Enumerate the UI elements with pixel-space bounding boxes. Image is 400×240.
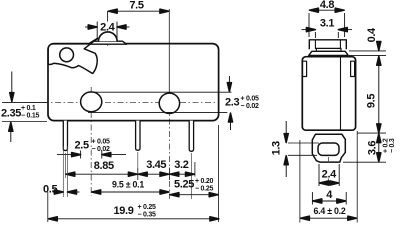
leader line hole bottom tangent [88, 111, 227, 113]
extension line pin2 centre [137, 152, 139, 168]
plunger stem (end view) [309, 40, 346, 50]
svg-text:9.5 ± 0.1: 9.5 ± 0.1 [112, 179, 144, 189]
body seam line [340, 57, 342, 130]
dimension 2.3 +0.05/-0.02 [229, 76, 230, 130]
plunger stem inner lines [314, 40, 316, 49]
svg-text:5.25: 5.25 [174, 179, 194, 191]
svg-text:9.5: 9.5 [366, 94, 378, 108]
switch body (end view) [302, 57, 355, 131]
svg-text:− 0.3: − 0.3 [389, 138, 396, 153]
svg-text:− 0.02: − 0.02 [92, 146, 111, 153]
svg-text:+ 0.1: + 0.1 [21, 105, 36, 112]
svg-text:4.8: 4.8 [320, 0, 334, 11]
terminal pin P1 [63, 121, 67, 151]
extension line body right edge down [218, 125, 220, 222]
svg-text:0.4: 0.4 [366, 27, 378, 42]
dimension chain 8.85 / 3.45 / 3.2 [65, 173, 195, 175]
dimension 7.5 [108, 10, 170, 12]
svg-text:3.1: 3.1 [320, 18, 334, 30]
centerline terminal [328, 157, 330, 164]
dimension 3.1 [302, 30, 353, 38]
svg-text:2.4: 2.4 [322, 169, 337, 181]
dimension 2.5 +0.05/-0.02 hole width [57, 151, 126, 159]
centerline hole H1 vertical [90, 87, 92, 196]
plunger flange (left view) [89, 41, 126, 44]
terminal pin P2 [136, 121, 140, 151]
svg-text:2.4: 2.4 [100, 21, 115, 33]
svg-text:+ 0.20: + 0.20 [195, 178, 214, 185]
extension line pin3 centre [190, 153, 192, 199]
leader line body bottom right [357, 132, 386, 134]
terminal slot hole [318, 143, 339, 155]
svg-text:2.5: 2.5 [75, 139, 89, 151]
leader lines slot 1.3 [288, 142, 319, 144]
dimension 9.5 height [378, 56, 380, 133]
centerline hole H2 vertical [168, 94, 170, 200]
svg-text:6.4 ± 0.2: 6.4 ± 0.2 [314, 206, 346, 216]
leader line terminal bottom [343, 161, 386, 163]
centerline plunger (left view) [107, 32, 109, 47]
solder terminal (end view) [312, 134, 345, 162]
dimension 19.9 +0.25/-0.35 overall length [48, 218, 220, 220]
svg-text:− 0.25: − 0.25 [195, 186, 214, 193]
dimension 9.5 ±0.1 hole spacing [91, 191, 169, 193]
dimension 0.4 [378, 41, 380, 50]
leader line hole top tangent [88, 91, 232, 93]
svg-text:3.45: 3.45 [146, 159, 166, 171]
svg-text:+ 0.25: + 0.25 [138, 204, 157, 211]
svg-text:19.9: 19.9 [114, 205, 134, 217]
right latch clip [351, 61, 355, 76]
extension tick chain at pin2 [137, 168, 139, 180]
plunger dome (left view) [99, 32, 118, 41]
dimension 2.35 +0.1/-0.15 [11, 72, 12, 143]
svg-text:− 0.35: − 0.35 [138, 212, 157, 219]
extension line body left edge down [47, 192, 49, 222]
leader lines flange 0.4 [349, 50, 386, 52]
dimension 1.3 [285, 121, 287, 177]
left latch clip [303, 61, 307, 76]
dimension 0.5 pin thickness [53, 146, 80, 197]
svg-text:+ 0.05: + 0.05 [92, 139, 111, 146]
mounting hole H2 [159, 93, 179, 113]
svg-text:1.3: 1.3 [271, 141, 283, 155]
terminal pin P3 [189, 121, 193, 152]
extension line pin1 centre [64, 153, 66, 178]
plunger collar [316, 48, 341, 51]
svg-text:8.85: 8.85 [94, 160, 114, 172]
centerline holes horizontal [30, 101, 215, 103]
svg-text:2.3: 2.3 [225, 97, 239, 109]
lever (broken-away actuator) [48, 38, 97, 73]
dimension 4 terminal width [312, 192, 346, 205]
svg-text:7.5: 7.5 [129, 0, 143, 12]
extension tick chain at hole H2 [168, 168, 170, 181]
leader line hole centre left [2, 101, 47, 103]
dimension 3.6 +0.2/-0.3 [378, 134, 380, 163]
svg-text:3.2: 3.2 [174, 159, 188, 171]
mounting hole H1 [81, 92, 102, 112]
dimension 6.4 ±0.2 [300, 217, 357, 219]
svg-text:3.6: 3.6 [367, 141, 379, 155]
dimension 5.25 +0.20/-0.25 [169, 194, 218, 196]
switch body (left view) [48, 44, 219, 121]
extension line 7.5 right end / hole H2 centre upper [168, 9, 170, 94]
dimension 2.4 slot width [319, 164, 339, 186]
svg-text:− 0.15: − 0.15 [21, 113, 40, 120]
svg-text:2.35: 2.35 [1, 107, 21, 119]
svg-text:4: 4 [326, 189, 333, 201]
plunger flange 4.8 wide [309, 51, 349, 55]
dimension 2.4 plunger [85, 22, 130, 41]
leader line body bottom left [2, 121, 47, 123]
extension lines 6.4 [299, 140, 301, 223]
lever pivot hole [60, 48, 74, 62]
extension line 7.5 left end [107, 11, 109, 22]
extension line 3.2 right end [194, 162, 196, 177]
svg-text:+ 0.05: + 0.05 [241, 96, 260, 103]
svg-text:− 0.02: − 0.02 [241, 103, 260, 110]
svg-text:0.5: 0.5 [43, 183, 57, 195]
dimension 4.8 [309, 10, 345, 37]
